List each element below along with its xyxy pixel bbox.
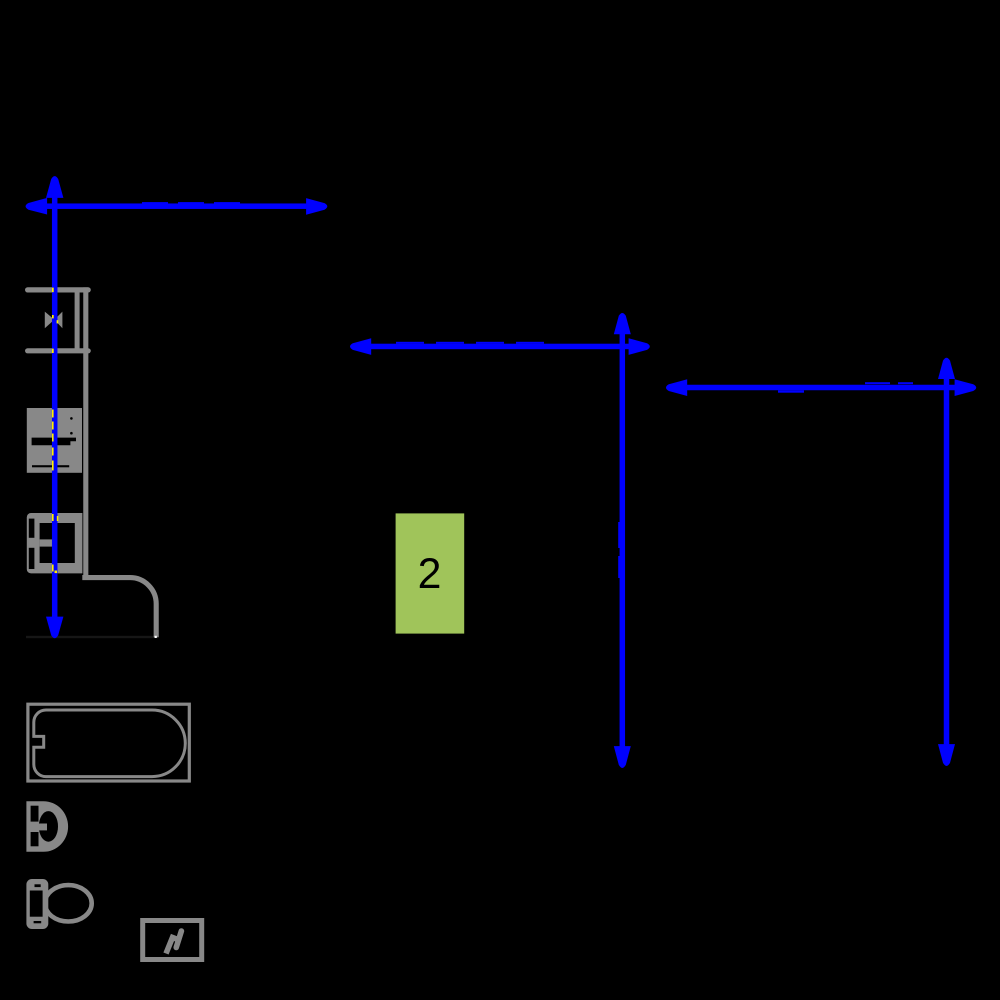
dimension arrow E (horizontal, right) — [666, 379, 976, 396]
svg-text:2: 2 — [418, 550, 442, 598]
boiler box — [143, 921, 202, 960]
room label 2 green box — [396, 513, 465, 633]
dimension arrow C (horizontal, middle) — [350, 338, 650, 355]
washbasin tap tab — [39, 824, 48, 831]
sink bowls cutout — [40, 523, 75, 563]
toilet tank top dash — [35, 884, 41, 887]
washbasin left slot bottom — [31, 832, 39, 846]
toilet tank inner — [30, 891, 43, 917]
refrigerator bowtie symbol — [45, 312, 63, 329]
bathtub outer rectangle — [28, 704, 189, 781]
washbasin left slot top — [31, 806, 39, 822]
dimension arrow B (horizontal, top) — [26, 198, 328, 215]
toilet bowl — [45, 885, 92, 921]
washbasin body — [26, 801, 68, 852]
refrigerator bottom line — [28, 348, 89, 353]
sink bowl divider — [40, 539, 57, 546]
refrigerator right side line — [75, 291, 80, 350]
stove handle black band — [32, 438, 76, 446]
stove knob dots — [70, 417, 73, 420]
sink left slot top — [29, 519, 35, 538]
sink left slot bottom — [29, 548, 35, 569]
stove block — [27, 408, 82, 473]
washbasin bowl — [39, 811, 58, 842]
boiler zigzag symbol — [166, 938, 177, 954]
stove thin black line — [32, 465, 69, 467]
toilet tank bottom dash — [34, 921, 42, 923]
white speck at counter line end — [155, 636, 157, 638]
dimension arrow F (vertical, right) — [938, 358, 955, 766]
yellow dashed hidden line at left dimension (visible over gray) — [52, 288, 58, 573]
kitchen sink unit — [27, 513, 83, 573]
toilet tank — [26, 879, 48, 929]
dimension arrow D (vertical, middle) — [614, 313, 631, 768]
refrigerator top line — [28, 287, 89, 292]
bathtub inner tub with drain notch — [34, 710, 186, 777]
kitchen counter edge (right vertical + bottom shelf with curve) — [82, 287, 156, 637]
faint floor line under counter end — [26, 636, 158, 638]
dimension arrow A (vertical, left) — [46, 176, 63, 638]
